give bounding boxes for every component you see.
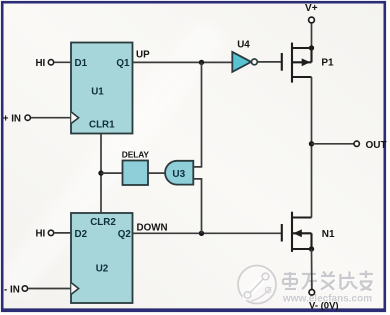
node junction on UP line — [199, 60, 204, 65]
N1 channel bar — [291, 212, 293, 252]
node junction on CLR line — [98, 170, 103, 175]
delay box — [123, 161, 149, 186]
P1 source stub (top) — [292, 47, 312, 49]
svg-text:Q1: Q1 — [116, 58, 130, 69]
svg-text:HI: HI — [35, 229, 45, 240]
P1 body arrow (points right) — [302, 58, 311, 66]
svg-text:V+: V+ — [305, 3, 318, 14]
U1 clock triangle — [71, 112, 78, 123]
svg-text:U1: U1 — [91, 87, 104, 98]
P1 drain stub (bottom) — [292, 76, 312, 78]
wire U3 top input stub — [193, 62, 201, 166]
node junction on DOWN line — [199, 231, 204, 236]
wire UP: Q1 to inverter input — [133, 61, 233, 63]
wire to OUT terminal — [312, 143, 354, 145]
svg-text:V- (0V): V- (0V) — [309, 300, 339, 311]
svg-text:U2: U2 — [96, 263, 109, 274]
N1 gate bar — [281, 224, 283, 242]
wire +IN to U1 clock — [31, 117, 71, 119]
P1 gate bar — [281, 53, 283, 71]
wire N1 source to V- — [311, 249, 313, 289]
svg-text:OUT: OUT — [366, 140, 387, 151]
svg-text:+ IN: + IN — [3, 114, 21, 125]
flip-flop U2 body — [71, 213, 133, 303]
wire P1 drain to N1 drain (output rail) — [311, 77, 313, 218]
N1 drain stub (top) — [292, 216, 312, 218]
wire U3 bottom input stub — [193, 179, 201, 233]
terminal HI (top) — [48, 60, 53, 65]
N1 body-source tie — [310, 233, 312, 249]
P1 body-source tie — [310, 48, 312, 62]
wire delay box to U3 output — [148, 172, 166, 174]
terminal OUT — [354, 141, 359, 146]
svg-text:CLR2: CLR2 — [90, 217, 116, 228]
and-gate U3 (faces left) — [165, 161, 193, 185]
svg-text:U4: U4 — [237, 39, 250, 50]
svg-text:DOWN: DOWN — [137, 222, 168, 233]
P1 channel bar — [291, 43, 293, 83]
terminal V- — [309, 290, 315, 296]
wire HI to D1 — [54, 61, 71, 63]
P1 body stub (middle) — [292, 61, 312, 63]
wire U4 output to P1 gate — [257, 61, 281, 63]
svg-text:- IN: - IN — [4, 284, 20, 295]
wire CLR1 to CLR2 vertical — [100, 134, 102, 213]
node P1 source dot — [309, 45, 314, 50]
N1 body stub (middle) — [292, 232, 312, 234]
svg-text:HI: HI — [35, 58, 45, 69]
transistor N1 — [282, 212, 312, 252]
svg-text:DELAY: DELAY — [122, 149, 150, 159]
N1 source stub (bottom) — [292, 248, 312, 250]
flip-flop U1 body — [71, 43, 133, 134]
wire HI to D2 — [54, 232, 71, 234]
node N1 source dot — [309, 246, 314, 251]
svg-text:UP: UP — [136, 49, 150, 60]
wire -IN to U2 clock — [28, 288, 71, 290]
wire V+ down to P1 source — [311, 23, 313, 48]
svg-text:Q2: Q2 — [118, 229, 132, 240]
U2 clock triangle — [71, 283, 78, 294]
transistor P1 — [282, 43, 312, 83]
svg-text:CLR1: CLR1 — [89, 120, 115, 131]
svg-text:P1: P1 — [321, 58, 334, 69]
svg-text:D2: D2 — [75, 229, 88, 240]
terminal HI (bottom) — [48, 230, 53, 235]
svg-text:U3: U3 — [172, 169, 185, 180]
terminal - IN — [22, 286, 27, 291]
svg-text:N1: N1 — [322, 229, 335, 240]
N1 body arrow (points left) — [293, 229, 302, 237]
svg-text:D1: D1 — [75, 58, 88, 69]
wire DOWN: Q2 to N1 gate — [133, 232, 281, 234]
terminal + IN — [25, 115, 30, 120]
node OUT junction — [309, 141, 314, 146]
wire junction to delay box — [101, 172, 123, 174]
